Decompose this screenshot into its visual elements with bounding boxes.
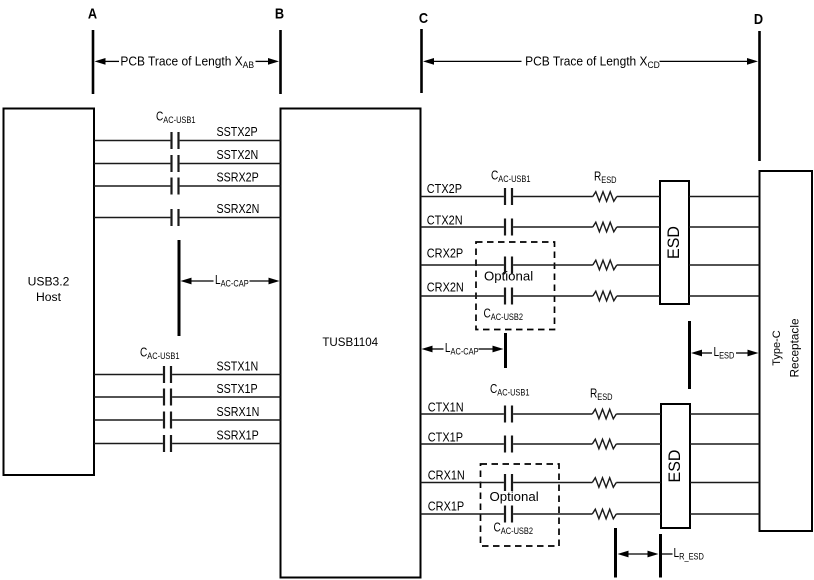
svg-text:CAC-USB1: CAC-USB1 [156,111,196,126]
wire CRX1N [421,482,760,484]
LR_ESD reference bar (left) [614,528,617,578]
svg-text:LAC-CAP: LAC-CAP [215,274,249,289]
svg-text:TUSB1104: TUSB1104 [322,335,378,349]
svg-text:Receptacle: Receptacle [788,318,802,377]
wire CTX2N [421,226,760,228]
optional box (top) [476,242,555,330]
block USB3.2 Host [4,109,95,476]
wire CTX1P [421,443,760,445]
svg-text:SSRX1N: SSRX1N [217,404,260,419]
svg-text:PCB Trace of Length XCD: PCB Trace of Length XCD [525,54,660,70]
wire SSTX1N [94,374,281,376]
wire SSTX2P [94,140,281,142]
block ESD U2 (bottom) [661,404,690,528]
capacitor CAC-USB1 on SSRX2P [172,178,179,195]
svg-text:SSTX1P: SSTX1P [217,381,258,396]
capacitor CAC-USB1 on SSTX1N [164,366,171,383]
capacitor CAC-USB1 on CTX1N [505,406,512,423]
svg-text:ESD: ESD [666,450,684,483]
svg-text:LAC-CAP: LAC-CAP [445,342,479,357]
resistor RESD on CTX1P [592,439,616,449]
capacitor CAC-USB1 on CTX2P [505,188,512,205]
capacitor CAC-USB1 on SSRX1P [164,435,171,452]
svg-text:Optional: Optional [484,269,533,284]
svg-text:Optional: Optional [490,489,539,504]
wire CRX1P [421,513,760,515]
wire SSRX2P [94,185,281,187]
capacitor CAC-USB2 on CRX1P [505,506,512,523]
svg-text:CRX1N: CRX1N [428,468,465,483]
svg-text:CAC-USB1: CAC-USB1 [140,347,180,362]
svg-text:CTX1P: CTX1P [428,430,463,445]
svg-text:CAC-USB1: CAC-USB1 [490,383,530,398]
wire CTX2P [421,196,760,198]
wire SSTX2N [94,163,281,165]
svg-text:A: A [88,4,97,21]
resistor RESD on CRX1N [592,478,616,488]
dimension arrow LAC-CAP (right) [422,342,504,357]
svg-text:LESD: LESD [714,346,735,361]
dimension arrow LAC-CAP (left) [181,274,280,289]
svg-text:CAC-USB2: CAC-USB2 [484,308,524,323]
svg-text:CAC-USB1: CAC-USB1 [491,170,531,185]
capacitor CAC-USB1 on CTX2N [505,219,512,236]
capacitor CAC-USB1 on CTX1P [505,436,512,453]
capacitor CAC-USB2 on CRX2P [505,257,512,274]
svg-text:SSTX2P: SSTX2P [217,124,258,139]
svg-text:SSRX1P: SSRX1P [217,428,259,443]
svg-text:USB3.2: USB3.2 [28,274,70,288]
node B [275,4,284,94]
svg-text:C: C [419,9,428,26]
block Type-C Receptacle [760,171,813,531]
dimension arrow PCB Trace of Length XCD [423,54,758,70]
dimension arrow LESD [691,346,759,361]
svg-text:LR_ESD: LR_ESD [674,547,704,562]
svg-text:D: D [754,10,763,27]
dimension arrow PCB Trace of Length XAB [95,54,280,70]
svg-text:SSTX1N: SSTX1N [217,359,259,374]
svg-text:PCB Trace of Length XAB: PCB Trace of Length XAB [120,54,254,70]
svg-text:Host: Host [36,290,62,304]
resistor RESD on CTX2N [593,222,617,232]
node D [754,10,763,161]
wire CRX2N [421,295,760,297]
resistor RESD on CRX2N [593,291,617,301]
svg-text:SSTX2N: SSTX2N [217,147,259,162]
svg-text:CAC-USB2: CAC-USB2 [494,522,534,537]
svg-text:CTX1N: CTX1N [428,400,464,415]
wire CTX1N [421,413,760,415]
svg-text:CRX1P: CRX1P [428,499,464,514]
resistor RESD on CRX2P [593,260,617,270]
svg-text:CRX2P: CRX2P [427,246,463,261]
LAC-CAP reference bar (right) [504,333,507,368]
block ESD U1 (top) [660,181,689,304]
LAC-CAP reference bar (left) [178,240,181,336]
LESD reference bar [688,321,691,389]
block TUSB1104 [281,109,421,578]
wire SSRX2N [94,217,281,219]
node C [419,9,428,93]
capacitor CAC-USB1 on SSTX2N [172,155,179,172]
capacitor CAC-USB1 on SSTX1P [164,389,171,406]
svg-text:CRX2N: CRX2N [427,280,464,295]
svg-text:CTX2P: CTX2P [427,181,462,196]
svg-text:RESD: RESD [590,388,613,403]
capacitor CAC-USB2 on CRX2N [505,288,512,305]
svg-text:Type-C: Type-C [771,330,783,366]
svg-text:B: B [275,4,284,21]
dimension arrow LR_ESD [618,547,704,562]
capacitor CAC-USB1 on SSRX1N [164,412,171,429]
optional box (bottom) [481,464,560,546]
svg-text:ESD: ESD [665,226,683,259]
svg-text:SSRX2N: SSRX2N [217,201,260,216]
svg-text:SSRX2P: SSRX2P [217,170,259,185]
capacitor CAC-USB1 on SSTX2P [172,132,179,149]
resistor RESD on CTX2P [593,192,617,202]
wire SSRX1N [94,419,281,421]
resistor RESD on CRX1P [592,509,616,519]
wire SSRX1P [94,443,281,445]
LR_ESD reference bar (right) [659,534,662,578]
node A [88,4,97,94]
wire CRX2P [421,264,760,266]
wire SSTX1P [94,396,281,398]
capacitor CAC-USB2 on CRX1N [505,474,512,491]
resistor RESD on CTX1N [592,409,616,419]
svg-text:CTX2N: CTX2N [427,213,463,228]
svg-text:RESD: RESD [594,171,617,186]
capacitor CAC-USB1 on SSRX2N [172,209,179,226]
